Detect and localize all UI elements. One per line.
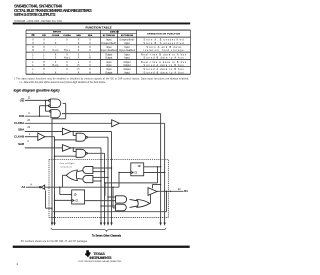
svg-text:Store A and B data: Store A and B data [147, 46, 182, 49]
svg-text:Input: Input [124, 57, 130, 60]
svg-text:SAB: SAB [76, 34, 81, 37]
svg-text:Unspecified†: Unspecified† [120, 40, 136, 42]
svg-text:CLKAB: CLKAB [14, 135, 24, 139]
svg-text:INSTRUMENTS: INSTRUMENTS [90, 256, 113, 260]
svg-text:DATA I/O: DATA I/O [110, 31, 119, 34]
svg-text:↑: ↑ [55, 68, 56, 71]
svg-text:↑: ↑ [55, 46, 56, 49]
svg-text:H or L: H or L [64, 49, 71, 52]
svg-text:FUNCTION TABLE: FUNCTION TABLE [86, 26, 112, 30]
svg-text:i.e., data at the bus pins wil: i.e., data at the bus pins will be store… [20, 81, 106, 84]
svg-text:Input: Input [106, 61, 112, 64]
svg-text:Input: Input [106, 46, 112, 49]
svg-text:Output: Output [124, 64, 131, 67]
svg-text:Isolation, hold storage: Isolation, hold storage [144, 49, 185, 52]
svg-text:Input: Input [106, 68, 112, 71]
svg-text:Output: Output [105, 71, 112, 74]
svg-text:Store A, B unspecified: Store A, B unspecified [144, 39, 185, 42]
svg-text:H or L: H or L [52, 49, 59, 52]
svg-text:Input disabled: Input disabled [119, 49, 136, 52]
svg-text:CLKAB: CLKAB [52, 34, 60, 37]
svg-text:B1: B1 [184, 189, 188, 193]
svg-text:One of Eight: One of Eight [60, 162, 75, 165]
svg-text:OPERATION OR FUNCTION: OPERATION OR FUNCTION [147, 33, 180, 36]
svg-text:↑: ↑ [66, 46, 67, 49]
svg-text:Stored A data to B bus: Stored A data to B bus [144, 68, 185, 71]
svg-text:To Seven Other Channels: To Seven Other Channels [92, 233, 122, 237]
svg-text:SAB: SAB [18, 142, 24, 146]
svg-text:Stored B data to A bus: Stored B data to A bus [144, 57, 185, 60]
svg-text:Output: Output [124, 68, 131, 71]
svg-text:H or L: H or L [52, 64, 59, 67]
svg-text:Real-time B data to A bus: Real-time B data to A bus [141, 54, 187, 57]
svg-text:DIR: DIR [19, 114, 25, 118]
svg-text:INPUTS: INPUTS [53, 32, 62, 34]
svg-text:Input: Input [124, 42, 130, 45]
svg-text:Channels: Channels [61, 167, 72, 169]
svg-text:WITH 3-STATE OUTPUTS: WITH 3-STATE OUTPUTS [14, 12, 56, 17]
svg-text:SBA: SBA [88, 34, 93, 37]
svg-text:Unspecified†: Unspecified† [101, 43, 117, 45]
svg-text:Output: Output [105, 54, 112, 57]
svg-text:A1: A1 [22, 185, 26, 189]
svg-text:POST OFFICE BOX 655303 • DALLA: POST OFFICE BOX 655303 • DALLAS, TEXAS 7… [78, 260, 122, 263]
svg-text:Output: Output [124, 61, 131, 64]
svg-text:Stored B data to A bus: Stored B data to A bus [144, 71, 185, 74]
svg-text:Input: Input [124, 54, 130, 57]
svg-text:H or L: H or L [64, 57, 71, 60]
svg-text:Input disabled: Input disabled [101, 49, 118, 52]
svg-text:Input: Input [106, 39, 112, 42]
svg-text:SBA: SBA [18, 128, 25, 132]
svg-text:Pin numbers shown are for the: Pin numbers shown are for the DB, DW, JT… [21, 240, 88, 243]
svg-text:Store B, A unspecified: Store B, A unspecified [144, 42, 185, 45]
svg-text:logic diagram (positive logic): logic diagram (positive logic) [14, 88, 61, 92]
svg-text:CLKBA: CLKBA [14, 121, 25, 125]
svg-text:CLKBA: CLKBA [63, 34, 71, 37]
svg-text:↑: ↑ [66, 71, 67, 74]
svg-text:Stored A data to B bus: Stored A data to B bus [144, 64, 185, 67]
svg-text:A1 THRU A8: A1 THRU A8 [103, 34, 116, 37]
svg-text:Input: Input [124, 46, 130, 49]
svg-text:↑: ↑ [55, 39, 56, 42]
svg-text:↑: ↑ [66, 42, 67, 45]
svg-text:Input: Input [106, 64, 112, 67]
svg-text:1D: 1D [74, 194, 77, 196]
svg-text:Output: Output [105, 57, 112, 60]
svg-text:Real-time A data to B bus: Real-time A data to B bus [141, 61, 187, 64]
svg-text:† The data output functions ma: † The data output functions may be enabl… [14, 78, 189, 81]
svg-text:1D: 1D [138, 166, 141, 168]
svg-text:DIR: DIR [42, 35, 46, 37]
svg-text:Input: Input [124, 71, 130, 74]
svg-text:B1 THRU B8: B1 THRU B8 [121, 35, 134, 37]
